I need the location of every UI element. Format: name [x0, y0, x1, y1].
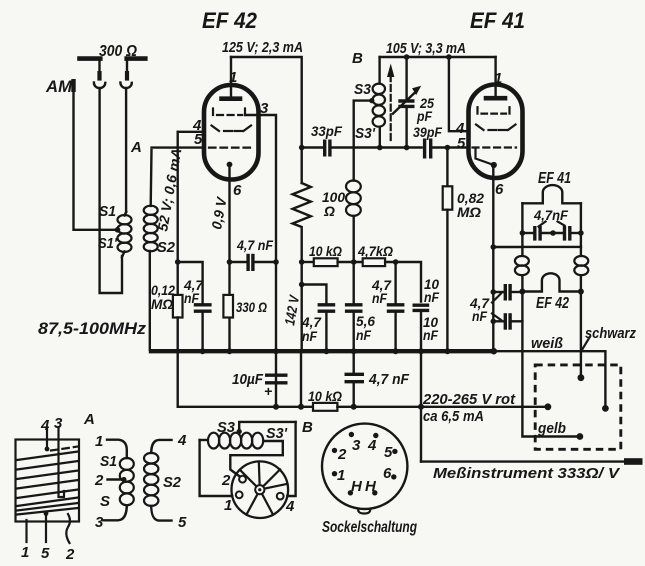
svg-text:3: 3: [260, 100, 269, 117]
svg-text:MΩ: MΩ: [151, 296, 173, 312]
svg-text:2: 2: [221, 472, 231, 489]
svg-text:EF 42: EF 42: [202, 8, 258, 33]
svg-text:2: 2: [337, 446, 347, 463]
svg-text:nF: nF: [472, 308, 487, 324]
svg-text:A: A: [130, 139, 142, 156]
svg-text:3: 3: [95, 514, 104, 531]
svg-text:S3: S3: [354, 81, 372, 98]
svg-text:EF 42: EF 42: [536, 295, 569, 312]
svg-text:105 V; 3,3 mA: 105 V; 3,3 mA: [386, 40, 466, 57]
svg-text:6: 6: [233, 182, 242, 199]
svg-text:weiß: weiß: [531, 335, 563, 352]
svg-text:B: B: [352, 50, 363, 67]
svg-text:4: 4: [367, 437, 377, 454]
svg-text:1: 1: [337, 467, 345, 484]
svg-text:Ω: Ω: [323, 203, 335, 219]
svg-text:1: 1: [229, 69, 237, 86]
svg-text:4: 4: [40, 417, 50, 434]
svg-text:220-265 V rot: 220-265 V rot: [422, 391, 516, 408]
svg-text:4,7 nF: 4,7 nF: [368, 371, 410, 388]
svg-text:H: H: [365, 478, 377, 495]
svg-text:H: H: [351, 478, 363, 495]
svg-text:A: A: [83, 411, 95, 428]
svg-text:S3': S3': [266, 425, 287, 442]
svg-text:pF: pF: [416, 108, 432, 124]
svg-text:AM: AM: [45, 77, 73, 96]
svg-text:nF: nF: [356, 327, 371, 343]
svg-text:2: 2: [94, 472, 104, 489]
svg-text:4: 4: [285, 498, 295, 515]
svg-text:nF: nF: [424, 289, 439, 305]
svg-text:3: 3: [54, 415, 63, 432]
svg-text:10 kΩ: 10 kΩ: [309, 243, 342, 259]
svg-text:5: 5: [41, 545, 50, 562]
svg-text:S2: S2: [157, 239, 176, 256]
svg-text:EF 41: EF 41: [470, 8, 525, 33]
svg-text:+: +: [264, 383, 272, 399]
svg-text:125 V; 2,3 mA: 125 V; 2,3 mA: [222, 39, 303, 56]
svg-text:S1: S1: [100, 453, 117, 470]
svg-text:330 Ω: 330 Ω: [236, 299, 267, 315]
svg-text:S3: S3: [217, 419, 236, 436]
svg-text:5: 5: [194, 131, 203, 148]
svg-text:ca 6,5 mA: ca 6,5 mA: [423, 408, 484, 425]
svg-text:4,7kΩ: 4,7kΩ: [357, 243, 393, 259]
svg-text:6: 6: [383, 465, 392, 482]
svg-text:gelb: gelb: [537, 420, 566, 437]
svg-text:schwarz: schwarz: [585, 325, 636, 342]
svg-text:5: 5: [178, 514, 187, 531]
svg-text:5: 5: [457, 135, 466, 152]
svg-text:2: 2: [65, 546, 75, 563]
svg-text:B: B: [302, 419, 313, 436]
svg-text:87,5-100MHz: 87,5-100MHz: [38, 319, 147, 338]
svg-text:S: S: [100, 493, 110, 510]
svg-text:6: 6: [495, 181, 504, 198]
svg-text:S1': S1': [98, 235, 117, 252]
svg-text:4,7nF: 4,7nF: [533, 207, 568, 223]
svg-text:nF: nF: [302, 328, 317, 344]
svg-text:nF: nF: [184, 290, 199, 306]
svg-text:1: 1: [21, 544, 29, 561]
svg-text:1: 1: [494, 70, 502, 87]
svg-text:nF: nF: [423, 327, 438, 343]
svg-text:Meßinstrument 333Ω/ V: Meßinstrument 333Ω/ V: [433, 465, 621, 482]
svg-text:3: 3: [352, 437, 361, 454]
svg-text:MΩ: MΩ: [457, 204, 481, 220]
svg-text:39pF: 39pF: [413, 124, 442, 140]
svg-text:Sockelschaltung: Sockelschaltung: [322, 519, 417, 536]
svg-text:33pF: 33pF: [311, 123, 342, 139]
svg-text:4: 4: [177, 432, 187, 449]
svg-text:10µF: 10µF: [232, 371, 264, 388]
svg-text:S3': S3': [355, 125, 375, 142]
svg-text:4,7 nF: 4,7 nF: [236, 237, 273, 253]
svg-text:10 kΩ: 10 kΩ: [308, 388, 342, 404]
svg-text:nF: nF: [372, 290, 387, 306]
svg-text:5: 5: [384, 444, 393, 461]
svg-text:1: 1: [95, 433, 103, 450]
svg-text:1: 1: [224, 497, 232, 514]
svg-text:S1: S1: [99, 203, 116, 220]
svg-text:S2: S2: [163, 474, 182, 491]
